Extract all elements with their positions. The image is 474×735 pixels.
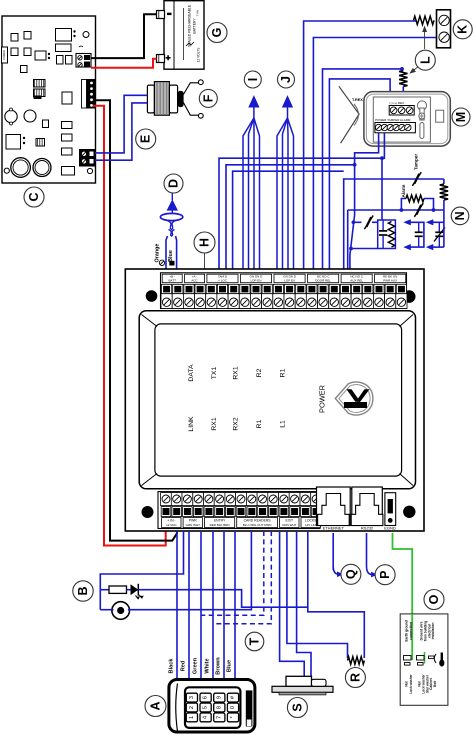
wire blue conductor xyxy=(176,236,177,271)
wire orange conductor xyxy=(166,236,168,271)
svg-text:K: K xyxy=(456,25,470,34)
keypad A xyxy=(169,680,255,733)
svg-text:Orange: Orange xyxy=(155,244,161,263)
svg-text:PWR AUX: PWR AUX xyxy=(383,279,397,283)
tamper EOL resistor xyxy=(443,179,445,184)
svg-text:3: 3 xyxy=(189,696,195,699)
keypad wire Green xyxy=(200,531,202,683)
battery G xyxy=(157,1,205,70)
T.REX request-to-exit detector M xyxy=(339,86,450,146)
svg-text:POWER: POWER xyxy=(2,50,6,60)
terminal block K xyxy=(437,10,451,48)
svg-text:Blue: Blue xyxy=(168,250,174,262)
wire to T.REX power terminal xyxy=(329,79,396,271)
svg-text:ETHERNET: ETHERNET xyxy=(323,526,345,531)
svg-text:Red: Red xyxy=(181,660,187,671)
alarm resistor branch xyxy=(401,199,406,211)
keypad wire Red xyxy=(188,531,190,683)
wire to EOL resistor left xyxy=(287,531,348,658)
svg-text:O: O xyxy=(427,594,441,604)
svg-text:BATT: BATT xyxy=(168,279,176,283)
mounting hole xyxy=(403,290,416,303)
keypad wire White xyxy=(212,531,214,683)
buzzer B xyxy=(100,531,251,619)
svg-text:DOOR REL: DOOR REL xyxy=(315,279,331,283)
label E xyxy=(136,129,156,149)
wire crossing to T.REX power xyxy=(226,165,355,271)
junction node xyxy=(380,156,384,160)
svg-text:Green: Green xyxy=(193,657,199,674)
label J xyxy=(278,71,295,88)
svg-text:C: C xyxy=(27,192,41,201)
wire crossing to door contact loop xyxy=(219,158,382,271)
tamper switch xyxy=(414,174,419,184)
junction node xyxy=(432,208,436,212)
junction node xyxy=(352,220,356,224)
svg-text:12 VDC: 12 VDC xyxy=(166,523,177,527)
svg-text:D: D xyxy=(167,179,181,188)
junction node xyxy=(349,247,353,251)
svg-text:G: G xyxy=(210,28,224,38)
mounting hole xyxy=(403,506,415,518)
alarm contact branch xyxy=(348,209,444,211)
svg-text:EGND: EGND xyxy=(384,526,396,531)
label A xyxy=(145,696,166,717)
KT-300 controller board xyxy=(125,269,424,531)
wire to door contact terminal 1 xyxy=(280,531,305,679)
svg-text:4: 4 xyxy=(203,716,209,719)
svg-text:P: P xyxy=(378,571,392,579)
reader cable bundle I xyxy=(243,95,260,271)
reader cable bundle J xyxy=(277,95,294,271)
wire to door contact terminal 2 xyxy=(297,531,311,679)
svg-text:Alarm: Alarm xyxy=(401,184,406,197)
ETHERNET jack xyxy=(317,487,351,531)
Kantech K logo xyxy=(335,382,373,415)
svg-text:A: A xyxy=(149,701,163,710)
label H xyxy=(194,232,215,253)
PCB lock power connector xyxy=(80,150,95,167)
wire crossing to tamper loop xyxy=(233,171,344,271)
svg-text:SEALED RECHARGEABLE: SEALED RECHARGEABLE xyxy=(188,4,192,47)
T.REX power wire 1 xyxy=(350,133,379,271)
junction node xyxy=(400,208,404,212)
label S xyxy=(287,698,307,718)
PCB DC output connector xyxy=(82,80,96,109)
PCB battery output connector xyxy=(76,54,91,68)
svg-text:BLU ORG OUT DWN: BLU ORG OUT DWN xyxy=(243,523,272,527)
svg-text:L: L xyxy=(418,56,432,64)
label B xyxy=(73,581,93,601)
label I xyxy=(244,71,261,88)
wire to Q (ethernet) xyxy=(332,533,334,570)
svg-text:GRN WHT: GRN WHT xyxy=(282,523,296,527)
node H leader line xyxy=(204,253,206,271)
svg-text:Brown: Brown xyxy=(216,657,222,675)
svg-text:5: 5 xyxy=(203,706,209,709)
svg-text:L1: L1 xyxy=(279,420,286,428)
svg-text:+ LOC: + LOC xyxy=(218,279,228,283)
keypad wire Brown xyxy=(223,531,225,683)
wire to L resistor junction xyxy=(323,69,402,271)
svg-text:EXIT: EXIT xyxy=(286,519,294,523)
svg-text:Tamper: Tamper xyxy=(413,154,418,170)
twisted pair cable D xyxy=(160,192,182,236)
svg-text:(-) (+) REX: (-) (+) REX xyxy=(390,101,405,105)
battery negative wire xyxy=(91,14,157,58)
svg-text:1: 1 xyxy=(189,716,195,719)
svg-text:R1: R1 xyxy=(279,368,286,377)
svg-text:CARD READERS: CARD READERS xyxy=(244,519,272,523)
svg-text:H: H xyxy=(198,238,212,247)
door contact row wire xyxy=(353,221,361,223)
label R xyxy=(345,668,365,688)
svg-text:B: B xyxy=(76,586,90,595)
svg-text:DATA: DATA xyxy=(188,364,195,382)
battery positive wire xyxy=(91,59,157,68)
tamper loop wire xyxy=(344,179,444,271)
label L with arrows xyxy=(409,26,427,74)
wire to K terminal (top) xyxy=(304,21,416,271)
label O xyxy=(424,590,444,610)
RS232 jack xyxy=(351,487,383,531)
label G xyxy=(207,23,227,43)
red 12V wire from PCB to controller xyxy=(93,106,166,546)
T.REX EOL resistor xyxy=(399,71,407,87)
ground hardware legend xyxy=(400,614,448,705)
junction node xyxy=(353,163,357,167)
svg-text:TX1: TX1 xyxy=(211,367,218,380)
T.REX power wire 2 xyxy=(382,133,384,220)
keypad wire Blue xyxy=(234,531,236,683)
svg-text:9: 9 xyxy=(216,696,222,699)
svg-text:7: 7 xyxy=(216,716,222,719)
wire resistor to T.REX xyxy=(402,87,404,107)
optional dashed wire 1 xyxy=(201,531,264,615)
svg-text:R1: R1 xyxy=(256,419,263,428)
svg-text:Q: Q xyxy=(344,569,358,579)
svg-text:RX1: RX1 xyxy=(233,366,240,379)
svg-text:RX1: RX1 xyxy=(211,417,218,430)
svg-text:ACC: ACC xyxy=(191,279,198,283)
resistor in box xyxy=(388,222,394,248)
svg-text:connection: connection xyxy=(409,622,413,640)
svg-text:LINK: LINK xyxy=(188,416,195,432)
door contact switch xyxy=(366,217,371,227)
svg-text:PWR: PWR xyxy=(189,519,197,523)
svg-text:Bolt: Bolt xyxy=(433,680,437,687)
svg-text:RS232: RS232 xyxy=(361,526,374,531)
svg-text:POWER TAMPER ALARM: POWER TAMPER ALARM xyxy=(375,118,411,122)
svg-text:ENTRY: ENTRY xyxy=(214,519,226,523)
svg-text:S: S xyxy=(290,703,304,711)
LED and resistor B xyxy=(100,531,307,610)
resistor (EOL) at K xyxy=(414,16,435,24)
svg-text:F: F xyxy=(201,94,215,102)
svg-text:Lock washer: Lock washer xyxy=(409,674,413,694)
svg-text:POWER: POWER xyxy=(318,385,327,413)
svg-text:+ IN -: + IN - xyxy=(167,519,175,523)
controller top terminal strip xyxy=(159,260,407,308)
svg-text:T: T xyxy=(248,637,262,645)
box bottom bus wire xyxy=(351,248,378,250)
wire to P (rs232) xyxy=(366,533,368,566)
parallel contact group 2 xyxy=(403,219,424,250)
parallel contact group 3 xyxy=(426,219,445,250)
label C xyxy=(24,187,44,207)
tamper resistor to contact groups wire xyxy=(443,200,445,247)
label P xyxy=(375,565,395,585)
svg-text:12 VOLTS: 12 VOLTS xyxy=(197,48,201,63)
strike power wire 2 xyxy=(95,103,147,160)
label F xyxy=(199,89,217,107)
label Q xyxy=(341,564,361,584)
svg-text:M: M xyxy=(454,112,468,122)
label K xyxy=(453,20,472,39)
optional dashed wire 2 xyxy=(213,531,271,624)
svg-text:I: I xyxy=(246,78,260,81)
label N xyxy=(451,207,469,225)
svg-text:AUX REL: AUX REL xyxy=(350,279,363,283)
svg-text:6: 6 xyxy=(203,696,209,699)
controller bottom terminal strip xyxy=(158,492,322,529)
svg-text:R: R xyxy=(348,673,362,682)
svg-text:Blue: Blue xyxy=(227,660,233,672)
svg-text:GRN WHT: GRN WHT xyxy=(186,523,200,527)
svg-text:installation: installation xyxy=(431,623,435,640)
label M xyxy=(452,108,470,126)
svg-text:BATTERY: BATTERY xyxy=(193,18,197,34)
svg-text:12V LK1: 12V LK1 xyxy=(305,523,317,527)
svg-text:N: N xyxy=(453,211,467,220)
capacitor in box xyxy=(379,220,387,249)
svg-text:J: J xyxy=(279,76,293,83)
keypad wire Black xyxy=(176,531,178,683)
wire to K terminal (bottom) xyxy=(313,38,436,272)
EGND connector xyxy=(384,493,396,531)
earth ground wire xyxy=(393,533,413,614)
mounting hole xyxy=(142,506,154,518)
door contact S xyxy=(272,676,333,695)
svg-text:T.REX: T.REX xyxy=(352,98,363,102)
svg-text:8: 8 xyxy=(216,706,222,709)
svg-text:0: 0 xyxy=(230,706,236,709)
svg-text:LOCKS: LOCKS xyxy=(305,519,317,523)
svg-text:R2: R2 xyxy=(256,368,263,377)
EOL box wire loop xyxy=(378,220,396,249)
wire alarm loop to strip xyxy=(347,210,349,271)
mounting hole xyxy=(146,290,158,302)
svg-text:RX2: RX2 xyxy=(233,417,240,430)
electric door strike F xyxy=(147,80,203,118)
svg-text:2: 2 xyxy=(189,706,195,709)
label T xyxy=(245,632,264,651)
svg-text:LOP EX: LOP EX xyxy=(284,279,295,283)
strike power wire 1 xyxy=(95,95,147,153)
svg-text:E: E xyxy=(139,135,153,143)
svg-text:RED BLK BRN: RED BLK BRN xyxy=(210,523,230,527)
EOL resistor R xyxy=(348,657,365,665)
svg-text:7 AH: 7 AH xyxy=(196,10,200,17)
label D xyxy=(164,174,183,193)
svg-text:White: White xyxy=(205,658,211,673)
wire to EOL resistor right xyxy=(308,531,365,658)
power supply board C xyxy=(2,16,96,183)
status LED labels xyxy=(188,364,326,432)
junction node xyxy=(400,67,404,71)
svg-text:Black: Black xyxy=(169,658,175,674)
black wire from PCB to controller xyxy=(93,100,177,540)
svg-text:LOP EN: LOP EN xyxy=(251,279,262,283)
